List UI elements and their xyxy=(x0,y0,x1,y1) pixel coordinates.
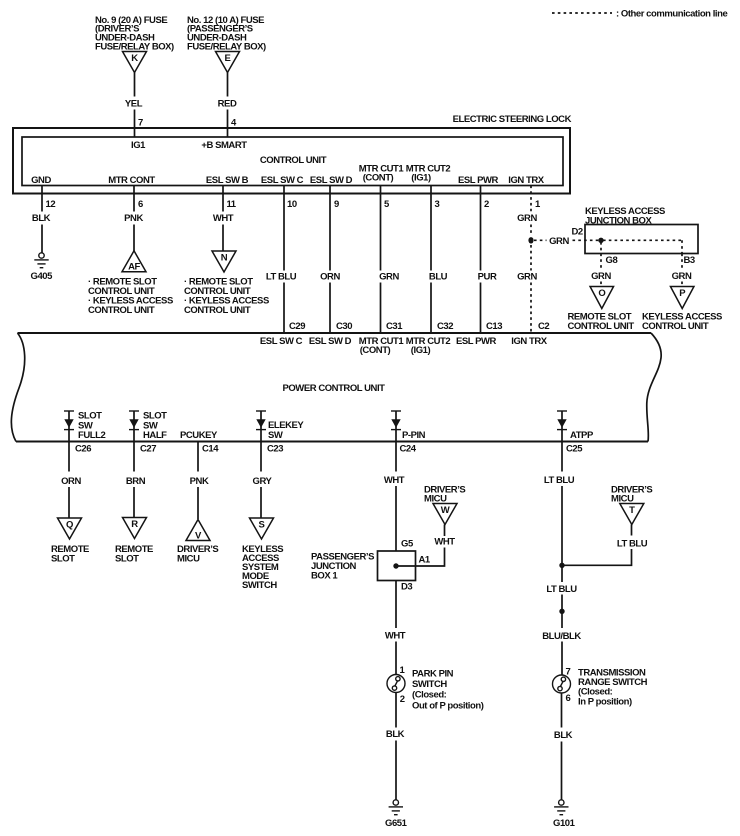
svg-text:PARK PIN: PARK PIN xyxy=(412,668,454,679)
svg-text:: Other communication line: : Other communication line xyxy=(616,9,727,20)
wire GRN pin 5 to C31 xyxy=(379,186,399,334)
wire GRN dashed to junction box xyxy=(534,236,600,247)
svg-text:In P position): In P position) xyxy=(578,696,632,707)
wire YEL from fuse K to pin 7 xyxy=(125,73,143,138)
svg-text:MICU: MICU xyxy=(177,553,200,564)
svg-text:SW: SW xyxy=(268,430,283,441)
junction in passenger junction box xyxy=(393,563,398,568)
wire PNK from C14 xyxy=(190,442,209,520)
connector V xyxy=(186,520,210,542)
park pin switch SW1 xyxy=(387,675,405,693)
band pin label MTR CUT2 (IG1) xyxy=(406,336,451,356)
svg-text:2: 2 xyxy=(400,694,405,705)
svg-text:D3: D3 xyxy=(401,582,412,593)
keyless access junction box xyxy=(585,225,698,254)
node: driver micu (W) xyxy=(424,484,465,504)
svg-text:BLK: BLK xyxy=(386,729,405,740)
svg-text:BLK: BLK xyxy=(554,730,573,741)
node: remote slot (Q) xyxy=(51,544,89,565)
power control unit band bottom edge xyxy=(16,441,648,443)
svg-text:(CONT): (CONT) xyxy=(363,173,394,184)
svg-text:C30: C30 xyxy=(336,321,352,332)
svg-text:WHT: WHT xyxy=(384,475,405,486)
svg-text:LT BLU: LT BLU xyxy=(546,584,577,595)
node: remote slot (R) xyxy=(115,544,153,565)
svg-text:LT BLU: LT BLU xyxy=(266,271,297,282)
svg-text:E: E xyxy=(225,53,231,64)
svg-text:C23: C23 xyxy=(267,444,283,455)
svg-text:T: T xyxy=(629,505,635,516)
switch contact P-PIN xyxy=(391,411,401,442)
wire WHT from D3 to park pin switch xyxy=(385,581,406,675)
svg-text:ESL SW B: ESL SW B xyxy=(206,175,249,186)
svg-text:BLK: BLK xyxy=(32,213,51,224)
node: keyless access system mode switch xyxy=(242,544,283,591)
pin label MTR CUT1 (CONT) xyxy=(359,164,405,184)
svg-text:ESL SW D: ESL SW D xyxy=(310,175,353,186)
switch contact ATPP xyxy=(557,411,567,442)
svg-text:CONTROL UNIT: CONTROL UNIT xyxy=(260,155,327,166)
svg-text:P-PIN: P-PIN xyxy=(402,430,426,441)
svg-text:LT BLU: LT BLU xyxy=(617,539,648,550)
power control unit band top edge xyxy=(18,332,652,334)
svg-text:BRN: BRN xyxy=(126,476,146,487)
svg-text:RED: RED xyxy=(218,98,237,109)
svg-text:IGN TRX: IGN TRX xyxy=(508,175,544,186)
svg-text:ELECTRIC STEERING LOCK: ELECTRIC STEERING LOCK xyxy=(453,114,572,125)
wire BLK to G101 xyxy=(554,693,573,800)
node: driver micu (T) xyxy=(611,484,652,504)
svg-text:K: K xyxy=(131,53,138,64)
svg-text:ESL SW D: ESL SW D xyxy=(309,336,352,347)
node: driver micu (V) xyxy=(177,544,218,565)
svg-text:POWER CONTROL UNIT: POWER CONTROL UNIT xyxy=(282,383,385,394)
svg-text:C27: C27 xyxy=(140,444,156,455)
svg-text:GRN: GRN xyxy=(672,271,692,282)
connector E (fuse 12) xyxy=(216,52,240,73)
svg-text:C29: C29 xyxy=(289,321,305,332)
svg-text:(IG1): (IG1) xyxy=(411,173,431,184)
svg-text:Q: Q xyxy=(66,519,73,530)
svg-text:G651: G651 xyxy=(385,818,408,829)
band left torn edge xyxy=(11,333,24,442)
node: remote slot control unit xyxy=(568,311,635,332)
ground G405 xyxy=(31,253,54,282)
node: remote slot / keyless access control unit (left) xyxy=(88,277,173,317)
wire BLK pin 12 xyxy=(32,186,51,253)
connector W xyxy=(433,504,457,525)
wire PNK pin 6 xyxy=(124,186,143,252)
svg-text:(CONT): (CONT) xyxy=(360,345,391,356)
svg-text:GRN: GRN xyxy=(591,271,611,282)
wire LT BLU pin 10 to C29 xyxy=(266,186,297,334)
svg-text:B3: B3 xyxy=(684,255,695,266)
connector S xyxy=(250,518,274,539)
node: transmission range switch label xyxy=(578,668,648,708)
wire ORN from C26 xyxy=(61,442,81,519)
connector Q xyxy=(58,518,82,539)
wire ORN pin 9 to C30 xyxy=(320,186,340,334)
svg-text:D2: D2 xyxy=(572,227,583,238)
wire branch to driver micu T xyxy=(562,525,648,566)
switch contact ELEKEY SW xyxy=(256,411,266,442)
svg-text:CONTROL UNIT: CONTROL UNIT xyxy=(88,305,155,316)
svg-text:FULL2: FULL2 xyxy=(78,430,105,441)
connector T xyxy=(620,504,644,525)
wire BLK to G651 xyxy=(386,693,405,800)
svg-text:SWITCH: SWITCH xyxy=(412,679,447,690)
wire GRN dashed to connector O xyxy=(591,254,611,287)
svg-text:GND: GND xyxy=(31,175,51,186)
node: remote slot / keyless access control unit (right) xyxy=(184,277,269,317)
wire GRN pin 1 IGN TRX dashed xyxy=(517,186,537,334)
svg-text:2: 2 xyxy=(484,199,489,210)
svg-text:PUR: PUR xyxy=(478,271,497,282)
svg-text:C31: C31 xyxy=(386,321,403,332)
svg-text:R: R xyxy=(131,519,138,530)
dashed bus inside junction box xyxy=(601,240,682,253)
wire BLU/BLK to transmission range switch xyxy=(542,631,581,675)
junction inside box xyxy=(598,238,603,243)
svg-text:SWITCH: SWITCH xyxy=(242,580,277,591)
svg-text:9: 9 xyxy=(334,199,339,210)
svg-text:GRN: GRN xyxy=(517,213,537,224)
svg-text:AF: AF xyxy=(128,262,140,273)
svg-text:C14: C14 xyxy=(202,444,219,455)
svg-text:G405: G405 xyxy=(31,271,54,282)
svg-text:MICU: MICU xyxy=(424,494,447,505)
ESL control unit inner box xyxy=(22,137,563,186)
svg-text:WHT: WHT xyxy=(213,213,234,224)
wire LT BLU from C25 xyxy=(544,442,575,566)
connector P xyxy=(670,287,694,309)
wire WHT from C24 xyxy=(384,442,405,552)
wire RED from fuse E to pin 4 xyxy=(218,73,237,138)
node: park pin switch label xyxy=(412,668,484,711)
svg-text:12: 12 xyxy=(46,199,56,210)
svg-text:G8: G8 xyxy=(606,255,618,266)
connector AF xyxy=(122,251,146,273)
wire LT BLU below junction xyxy=(546,565,577,628)
svg-text:G101: G101 xyxy=(553,818,576,829)
svg-text:ESL PWR: ESL PWR xyxy=(456,336,497,347)
ESL control unit U1 outer box xyxy=(13,128,570,194)
svg-text:+B SMART: +B SMART xyxy=(201,140,247,151)
fuse E label: No.12 10A fuse passenger under-dash fuse/relay box xyxy=(187,15,266,53)
svg-text:ESL SW C: ESL SW C xyxy=(260,336,303,347)
svg-text:Out of P position): Out of P position) xyxy=(412,700,484,711)
svg-text:GRN: GRN xyxy=(549,236,569,247)
transmission range switch SW2 xyxy=(553,675,571,693)
connector N xyxy=(212,251,236,272)
svg-text:IGN TRX: IGN TRX xyxy=(511,336,547,347)
splice on ATPP wire xyxy=(559,609,564,614)
switch contact SLOT SW FULL2 xyxy=(64,411,74,442)
svg-text:W: W xyxy=(441,505,450,516)
band right torn edge xyxy=(647,333,661,442)
svg-text:ORN: ORN xyxy=(320,271,340,282)
svg-text:HALF: HALF xyxy=(143,430,167,441)
ground G101 xyxy=(553,800,576,829)
svg-text:GRY: GRY xyxy=(253,476,273,487)
svg-text:C24: C24 xyxy=(400,444,417,455)
svg-text:PCUKEY: PCUKEY xyxy=(180,430,218,441)
svg-text:WHT: WHT xyxy=(385,631,406,642)
svg-text:GRN: GRN xyxy=(517,271,537,282)
junction on IGN TRX line xyxy=(528,237,533,243)
wire BRN from C27 xyxy=(126,442,146,518)
svg-text:C26: C26 xyxy=(75,444,91,455)
wire junction box to A1 and driver micu W xyxy=(396,525,455,567)
node: passenger junction box 1 label xyxy=(311,551,374,581)
svg-text:CONTROL UNIT: CONTROL UNIT xyxy=(642,321,709,332)
svg-text:6: 6 xyxy=(138,199,143,210)
wire GRN dashed to connector P xyxy=(672,254,692,287)
switch contact SLOT SW HALF xyxy=(129,411,139,442)
passenger junction box 1 xyxy=(378,551,416,581)
node: keyless access control unit xyxy=(642,311,722,332)
svg-text:ESL SW C: ESL SW C xyxy=(261,175,304,186)
svg-text:LT BLU: LT BLU xyxy=(544,475,575,486)
connector O xyxy=(590,287,614,309)
svg-text:10: 10 xyxy=(287,199,297,210)
svg-text:ORN: ORN xyxy=(61,476,81,487)
ground G651 xyxy=(385,800,408,829)
svg-text:GRN: GRN xyxy=(379,271,399,282)
wire PUR pin 2 to C13 xyxy=(478,186,497,334)
svg-text:O: O xyxy=(598,288,605,299)
svg-text:MTR CONT: MTR CONT xyxy=(108,175,155,186)
svg-text:N: N xyxy=(221,252,228,263)
junction ATPP / driver micu T xyxy=(559,563,564,568)
svg-text:C2: C2 xyxy=(538,321,549,332)
svg-text:BLU/BLK: BLU/BLK xyxy=(542,631,581,642)
svg-text:C32: C32 xyxy=(437,321,453,332)
svg-text:SLOT: SLOT xyxy=(51,553,75,564)
legend: other communication line xyxy=(552,9,727,20)
keyless access junction box title xyxy=(585,206,665,227)
svg-text:3: 3 xyxy=(435,199,440,210)
connector K (fuse 9) xyxy=(123,52,147,73)
svg-text:C13: C13 xyxy=(486,321,502,332)
svg-text:ATPP: ATPP xyxy=(570,430,594,441)
connector R xyxy=(123,518,147,539)
svg-text:7: 7 xyxy=(138,118,143,129)
svg-text:WHT: WHT xyxy=(434,537,455,548)
svg-text:6: 6 xyxy=(566,693,571,704)
fuse K label: No.9 20A fuse driver under-dash fuse/relay box xyxy=(95,15,174,53)
svg-text:SLOT: SLOT xyxy=(115,553,139,564)
svg-text:MICU: MICU xyxy=(611,494,634,505)
wire BLU pin 3 to C32 xyxy=(429,186,448,334)
svg-text:BOX 1: BOX 1 xyxy=(311,571,338,582)
svg-text:CONTROL UNIT: CONTROL UNIT xyxy=(568,321,635,332)
svg-text:11: 11 xyxy=(227,199,237,210)
band pin label MTR CUT1 (CONT) xyxy=(359,336,405,356)
svg-text:BLU: BLU xyxy=(429,271,448,282)
svg-text:IG1: IG1 xyxy=(131,140,146,151)
svg-text:(IG1): (IG1) xyxy=(411,345,431,356)
svg-text:G5: G5 xyxy=(401,539,414,550)
svg-text:PNK: PNK xyxy=(190,476,209,487)
wire WHT pin 11 xyxy=(213,186,234,252)
svg-text:PNK: PNK xyxy=(124,213,143,224)
svg-text:(Closed:: (Closed: xyxy=(412,690,447,701)
svg-text:CONTROL UNIT: CONTROL UNIT xyxy=(184,305,251,316)
svg-text:A1: A1 xyxy=(419,555,431,566)
svg-text:YEL: YEL xyxy=(125,98,143,109)
svg-text:S: S xyxy=(259,519,265,530)
svg-text:C25: C25 xyxy=(566,444,583,455)
pin label MTR CUT2 (IG1) xyxy=(406,164,451,184)
wire GRY from C23 xyxy=(253,442,273,519)
svg-text:ESL PWR: ESL PWR xyxy=(458,175,499,186)
